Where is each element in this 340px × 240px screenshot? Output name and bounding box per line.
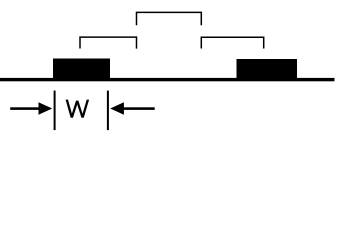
right width tick bbox=[107, 91, 109, 131]
right conductor strip bbox=[237, 59, 298, 81]
left arrowhead bbox=[39, 102, 53, 114]
right bracket bbox=[201, 37, 263, 48]
top bracket bbox=[137, 12, 202, 25]
right arrowhead bbox=[110, 102, 124, 114]
left width tick bbox=[54, 91, 56, 131]
left conductor strip bbox=[53, 59, 110, 81]
substrate ground line bbox=[0, 78, 335, 81]
left bracket bbox=[80, 37, 137, 49]
label W bbox=[66, 100, 90, 118]
left dimension line bbox=[10, 107, 39, 110]
right dimension line bbox=[123, 107, 155, 110]
